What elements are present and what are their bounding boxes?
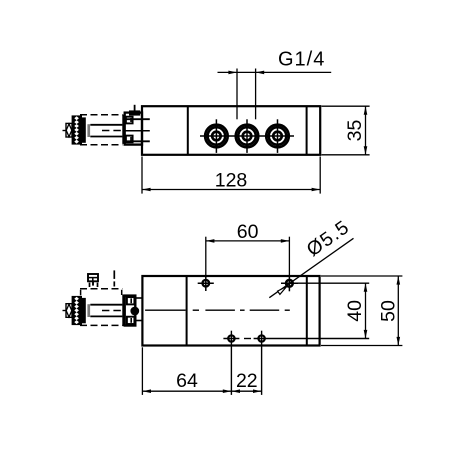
top mounting hole crosshair h <box>198 282 214 284</box>
manual override square symbol <box>88 274 98 281</box>
solenoid shaft centerline dashes (bottom view) <box>102 310 122 312</box>
top view right internal divider <box>306 106 308 155</box>
bottom hole 2 crosshair h + 40 dim lower extension <box>254 338 370 340</box>
knurl white diamonds (bottom view) <box>74 297 79 324</box>
connector stub line lower <box>123 140 150 142</box>
solenoid dashed outline right edge segment <box>121 290 123 295</box>
top view left internal divider <box>187 106 189 155</box>
50 dim extension bottom <box>321 345 402 347</box>
solenoid dashed outline bottom (top view) <box>80 144 122 146</box>
manual override leg right (dash) <box>97 283 99 287</box>
diameter 5.5 hole circle <box>286 280 293 287</box>
solenoid end plate (bottom view) <box>122 295 124 327</box>
solenoid centerline left stub (top view) <box>63 130 67 132</box>
22 arrow right (points right) <box>253 389 262 393</box>
solenoid shaft centerline dashes (top view) <box>102 130 122 132</box>
diameter 5.5 leader arrowhead (hollow, points up-right at hole) <box>278 286 287 294</box>
128 arrow right <box>312 188 321 192</box>
bracket screw box bottom (top view) <box>126 136 133 143</box>
port 1 circles <box>205 125 228 148</box>
60 dimension line <box>206 240 290 242</box>
port 2 vertical centerline <box>246 119 248 153</box>
bottom hole 1 vertical centerline / 64-22 extension <box>230 331 232 395</box>
64 arrow right <box>223 389 232 393</box>
dashed vertical marker <box>113 270 115 279</box>
centerline dash between bottom holes <box>244 338 251 340</box>
gray bushing (bottom view) <box>87 304 90 317</box>
pin dot (bottom view) <box>130 307 139 316</box>
solenoid centerline left stub (bottom view) <box>63 310 67 312</box>
pilot pin base block <box>129 110 140 115</box>
35 dim extension line bottom <box>322 154 370 156</box>
svg-text:60: 60 <box>237 221 259 243</box>
gray bushing (top view) <box>87 124 90 137</box>
40 arrow down <box>364 330 368 339</box>
60 arrow right <box>281 239 290 243</box>
60 dim extension line right <box>288 237 290 276</box>
port 1 vertical centerline <box>215 119 217 153</box>
bracket screw box top (top view) <box>126 117 133 124</box>
svg-text:35: 35 <box>344 120 366 142</box>
G1/4 arrow right (outside, points left) <box>256 71 265 75</box>
manual override leg left (dash) <box>89 283 91 287</box>
knob flange (bottom view) <box>82 298 86 323</box>
bottom view right internal divider <box>306 276 308 346</box>
60 dim extension line left <box>205 237 207 278</box>
35 dim extension line top <box>322 105 370 107</box>
G1/4 callout extension line right <box>255 69 257 120</box>
manual override stem <box>92 281 94 285</box>
diameter 5.5 hole crosshair v <box>288 276 290 292</box>
diameter 5.5 hole crosshair h <box>281 282 298 284</box>
G1/4 callout extension line left <box>236 69 238 120</box>
shaft top line (bottom view) <box>90 304 122 306</box>
top view valve body outline <box>142 106 320 155</box>
35 arrow up <box>364 106 368 115</box>
knob end cap (bottom view) <box>66 304 72 318</box>
64 dimension line <box>142 390 231 392</box>
64 arrow left <box>142 389 151 393</box>
knurled knob body (top view) <box>72 115 82 144</box>
bottom hole 2 circle <box>258 335 264 341</box>
top mounting hole circle <box>203 280 210 287</box>
knob end cap diamond <box>66 124 72 137</box>
connector stub line middle <box>123 130 150 132</box>
port horizontal centerline <box>200 135 294 137</box>
diameter 5.5 leader line <box>269 238 353 297</box>
35 dimension line <box>365 106 367 155</box>
60 arrow left <box>206 239 215 243</box>
G1/4 dimension line <box>218 71 332 73</box>
solenoid dashed outline top (bottom view) <box>80 288 122 290</box>
50 dim extension top <box>321 275 402 277</box>
knob flange (top view) <box>82 117 86 142</box>
svg-text:40: 40 <box>344 300 366 322</box>
top mounting hole crosshair v <box>205 277 207 291</box>
shaft bottom line (bottom view) <box>90 315 122 317</box>
connector stub line upper <box>123 118 150 120</box>
mounting bracket rect (bottom view) <box>125 296 136 326</box>
50 dimension line <box>397 276 399 346</box>
bracket to body stub upper <box>135 297 142 299</box>
svg-text:G1/4: G1/4 <box>278 48 325 70</box>
knurled knob body (bottom view) <box>72 296 82 325</box>
50 arrow up <box>397 276 401 285</box>
22 arrow left (points left) <box>231 389 240 393</box>
128 dim extension line right <box>319 157 321 194</box>
22 dimension line <box>231 390 261 392</box>
bottom hole 1 crosshair h <box>223 338 239 340</box>
knob end cap (top view) <box>66 123 72 137</box>
bracket inner box bottom (bottom view) <box>127 317 134 324</box>
64 dim extension line left <box>141 347 143 395</box>
port 3 circles <box>266 125 289 148</box>
bottom hole 2 vertical centerline / 22 extension <box>261 331 263 395</box>
128 dim extension line left <box>141 157 143 194</box>
40 dimension line <box>365 283 367 338</box>
knob end cap diamond (bottom view) <box>66 304 72 317</box>
svg-text:50: 50 <box>378 300 400 322</box>
bottom view left internal divider <box>186 276 188 346</box>
shaft top line (top view) <box>90 124 122 126</box>
port 3 vertical centerline <box>277 119 279 153</box>
body horizontal centerline segments <box>145 309 186 311</box>
pilot pin above bracket <box>134 105 136 113</box>
solenoid dashed outline left corner segment (bottom view) <box>80 290 82 296</box>
svg-text:Ø5.5: Ø5.5 <box>303 216 354 261</box>
40 arrow up <box>364 283 368 292</box>
50 arrow down <box>397 337 401 346</box>
port 2 circles <box>236 125 259 148</box>
mounting bracket rect (top view) <box>125 113 142 145</box>
shaft bottom line (top view) <box>90 136 122 138</box>
128 dimension line <box>142 189 320 191</box>
svg-text:64: 64 <box>176 370 198 392</box>
solenoid dashed outline bottom (bottom view) <box>80 324 122 326</box>
svg-text:22: 22 <box>236 370 258 392</box>
solenoid end plate (top view) <box>122 115 124 144</box>
128 arrow left <box>142 188 151 192</box>
solenoid dashed outline top (top view) <box>80 114 122 116</box>
G1/4 arrow left (outside, points right) <box>228 71 237 75</box>
bracket inner box top (bottom view) <box>127 297 134 304</box>
bracket to body stub lower <box>135 320 142 322</box>
35 arrow down <box>364 146 368 155</box>
svg-text:128: 128 <box>215 169 248 191</box>
40 dim extension top (from hole to dim line) <box>294 282 370 284</box>
bottom hole 1 circle <box>228 335 234 341</box>
bottom view valve body outline <box>142 276 319 346</box>
knurl white diamonds <box>74 116 79 143</box>
